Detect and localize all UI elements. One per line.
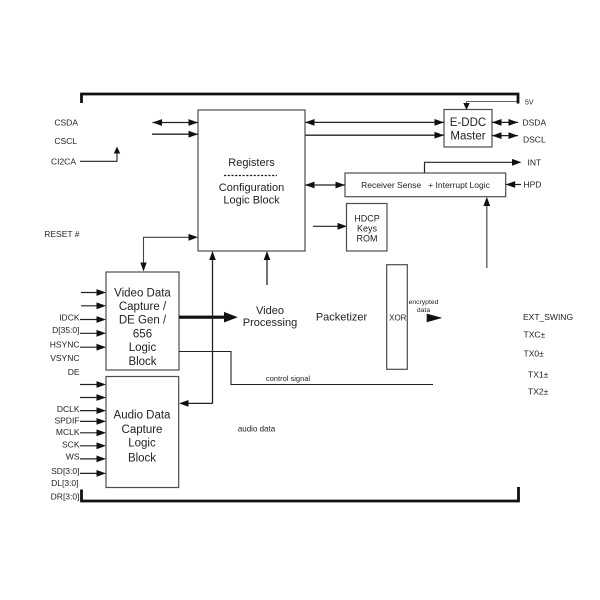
svg-text:Block: Block: [128, 356, 156, 368]
svg-text:SD[3:0]: SD[3:0]: [51, 466, 79, 476]
svg-text:SCK: SCK: [62, 440, 80, 450]
svg-text:Registers: Registers: [228, 157, 275, 169]
wire Video Processing to Registers (vertical): [264, 251, 271, 285]
wire video input 1: [81, 289, 106, 296]
svg-text:Block: Block: [128, 453, 156, 465]
svg-text:DSDA: DSDA: [523, 118, 547, 128]
svg-text:D[35:0]: D[35:0]: [52, 325, 79, 335]
svg-text:DE Gen /: DE Gen /: [119, 315, 167, 327]
top chip boundary line: [82, 94, 519, 104]
wire control signal: [179, 352, 433, 385]
svg-text:DE: DE: [68, 367, 80, 377]
svg-text:Logic: Logic: [128, 438, 156, 450]
svg-text:data: data: [417, 307, 430, 314]
svg-text:Video Data: Video Data: [114, 287, 171, 299]
svg-text:RESET #: RESET #: [44, 229, 80, 239]
bottom chip boundary line: [82, 487, 519, 501]
svg-text:INT: INT: [528, 158, 542, 168]
svg-text:XOR: XOR: [389, 313, 407, 322]
wire WS: [80, 456, 106, 463]
svg-text:Packetizer: Packetizer: [316, 311, 368, 323]
svg-text:DR[3:0]: DR[3:0]: [51, 492, 80, 502]
svg-text:Master: Master: [450, 130, 485, 142]
wire MCLK: [80, 429, 106, 436]
wire SPDIF: [80, 418, 106, 425]
block Audio Data Capture: [106, 377, 179, 488]
svg-text:HPD: HPD: [524, 180, 542, 190]
block E-DDC Master: [444, 110, 492, 148]
block Receiver Sense + Interrupt Logic: [345, 173, 506, 197]
svg-text:Logic Block: Logic Block: [223, 195, 280, 207]
svg-text:CSDA: CSDA: [54, 118, 78, 128]
svg-text:TX2±: TX2±: [528, 387, 549, 397]
wire DSCL (bidirectional): [492, 132, 518, 139]
wire CI2CA: [80, 147, 120, 162]
wire D[35:0]: [80, 330, 106, 337]
wire HPD: [506, 181, 521, 188]
svg-text:Keys: Keys: [357, 224, 378, 234]
svg-text:TX1±: TX1±: [528, 370, 549, 380]
svg-text:Logic: Logic: [129, 342, 157, 354]
svg-text:Capture: Capture: [122, 424, 163, 436]
svg-text:Capture /: Capture /: [119, 301, 167, 313]
wire encrypted data output arrow: [427, 314, 443, 323]
svg-text:IDCK: IDCK: [59, 313, 80, 323]
svg-text:656: 656: [133, 328, 152, 340]
svg-text:DSCL: DSCL: [523, 135, 546, 145]
svg-text:control signal: control signal: [266, 374, 311, 383]
svg-text:Receiver Sense + Interrupt L: Receiver Sense + Interrupt Logic: [361, 180, 490, 190]
svg-text:encrypted: encrypted: [409, 299, 439, 306]
wire Audio block to Registers (vertical): [179, 251, 216, 407]
svg-text:Configuration: Configuration: [219, 182, 284, 194]
svg-text:TX0±: TX0±: [524, 348, 545, 358]
svg-text:Video: Video: [256, 305, 284, 317]
svg-text:ROM: ROM: [357, 234, 378, 244]
wire INT: [425, 159, 522, 173]
svg-text:E-DDC: E-DDC: [450, 117, 486, 129]
svg-text:WS: WS: [66, 452, 80, 462]
wire audio input 2: [80, 394, 106, 401]
wire CSCL: [152, 131, 198, 138]
svg-text:HSYNC: HSYNC: [50, 340, 80, 350]
block Video Data Capture: [106, 272, 179, 370]
wire Registers to HDCP ROM: [313, 223, 347, 230]
svg-text:EXT_SWING: EXT_SWING: [523, 312, 573, 322]
svg-text:5V: 5V: [525, 100, 534, 107]
wire IDCK: [80, 316, 106, 323]
svg-text:CSCL: CSCL: [54, 136, 77, 146]
wire audio input 1: [80, 381, 106, 388]
wire DSDA (bidirectional): [492, 119, 518, 126]
wire into Receiver Sense bottom: [483, 197, 490, 268]
block HDCP Keys ROM: [347, 204, 388, 252]
svg-text:Processing: Processing: [243, 317, 297, 329]
wire DCLK: [80, 407, 106, 414]
svg-text:TXC±: TXC±: [524, 329, 546, 339]
wire 5V to E-DDC Master: [463, 102, 516, 111]
svg-text:SPDIF: SPDIF: [54, 415, 79, 425]
svg-text:CI2CA: CI2CA: [51, 157, 76, 167]
block Registers / Configuration Logic Block: [198, 110, 305, 251]
svg-text:DL[3:0]: DL[3:0]: [51, 478, 78, 488]
svg-text:MCLK: MCLK: [56, 427, 80, 437]
svg-text:HDCP: HDCP: [354, 214, 380, 224]
wire video data bus (thick) to Video Processing: [179, 312, 238, 323]
wire RESET path to Registers and Video block: [140, 234, 198, 272]
wire SD[3:0]: [80, 470, 106, 477]
wire SCK: [80, 442, 106, 449]
svg-text:Audio Data: Audio Data: [114, 410, 172, 422]
wire Registers to E-DDC (bidirectional): [305, 119, 444, 126]
wire Registers to E-DDC (lower): [305, 132, 444, 139]
block XOR: [387, 265, 408, 370]
wire CSDA (bidirectional): [153, 119, 199, 126]
wire Registers to Receiver Sense (bidirectional): [305, 182, 345, 189]
svg-text:audio data: audio data: [238, 425, 276, 434]
wire HSYNC: [80, 344, 106, 351]
wire video input 2: [81, 302, 106, 309]
svg-text:DCLK: DCLK: [57, 404, 80, 414]
svg-text:VSYNC: VSYNC: [50, 353, 79, 363]
